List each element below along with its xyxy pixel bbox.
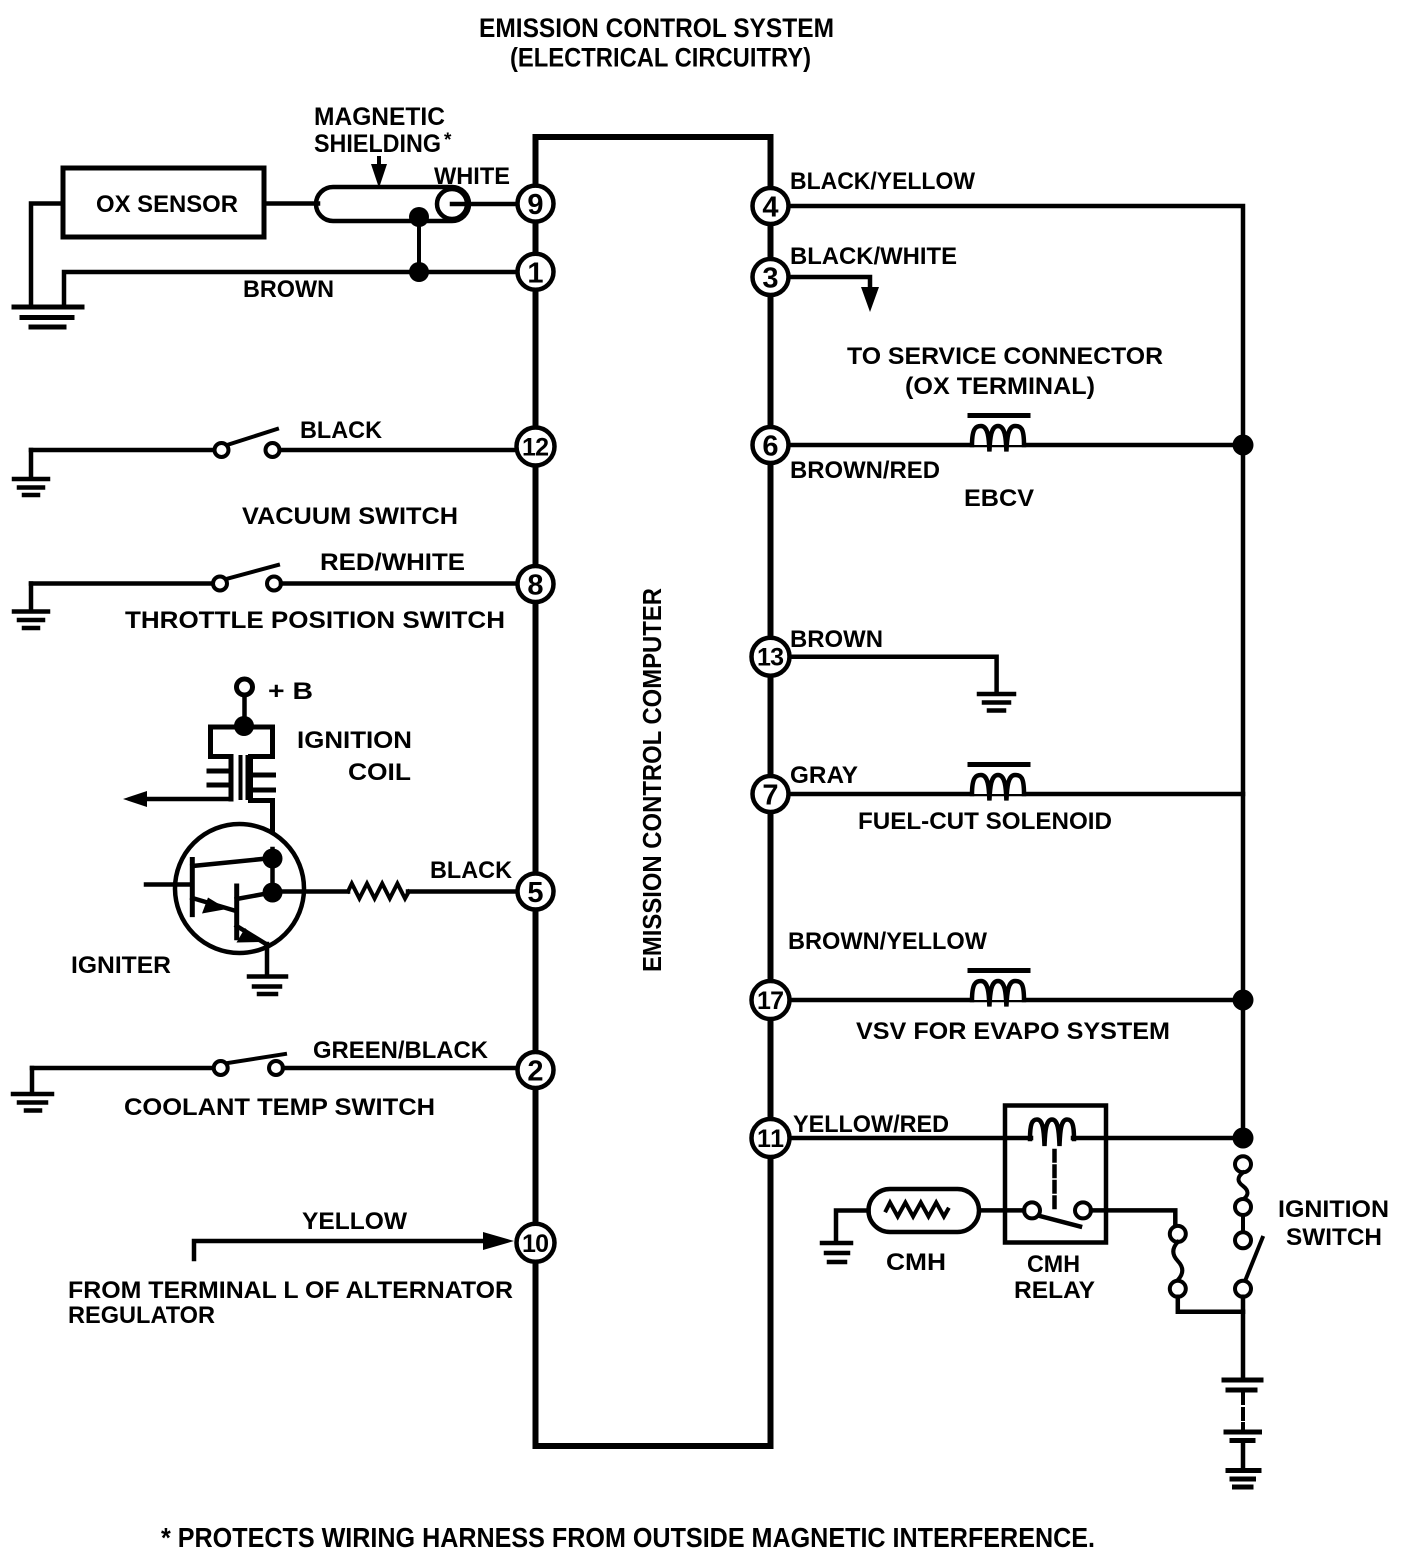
wire: pin 17 to bus xyxy=(789,998,1243,1003)
svg-text:COOLANT TEMP SWITCH: COOLANT TEMP SWITCH xyxy=(124,1094,435,1121)
wire: emitter to ground xyxy=(265,944,270,974)
pin 11 xyxy=(752,1119,790,1157)
svg-text:EMISSION CONTROL COMPUTER: EMISSION CONTROL COMPUTER xyxy=(637,588,667,972)
ground GND8 battery xyxy=(1228,1471,1259,1488)
switch contact xyxy=(215,443,229,457)
svg-text:11: 11 xyxy=(757,1125,784,1153)
ground GND2 xyxy=(14,479,48,495)
pin 10 xyxy=(517,1224,555,1262)
svg-text:4: 4 xyxy=(762,192,778,224)
svg-text:OX SENSOR: OX SENSOR xyxy=(96,191,238,218)
+B terminal xyxy=(237,679,253,695)
wavy wire xyxy=(1239,1173,1248,1200)
svg-text:VSV FOR EVAPO SYSTEM: VSV FOR EVAPO SYSTEM xyxy=(856,1018,1170,1045)
wavy wire xyxy=(1173,1242,1182,1280)
L2 core bar xyxy=(970,762,1028,767)
connector circle xyxy=(1235,1281,1251,1297)
relay coil L4 xyxy=(1030,1120,1074,1147)
wire: brown wire xyxy=(64,272,516,307)
ground GND1 xyxy=(14,307,82,327)
CMH relay box K1 xyxy=(1005,1106,1106,1243)
wire: coil secondary out (arrow left) xyxy=(136,797,231,802)
resistor R1 xyxy=(348,884,409,899)
svg-text:12: 12 xyxy=(522,434,549,462)
igniter Q1 xyxy=(175,824,304,953)
wire: switch to battery xyxy=(1241,1297,1246,1377)
svg-text:GRAY: GRAY xyxy=(790,762,858,789)
wire: ground to switch xyxy=(31,448,214,453)
wire: +B to coil xyxy=(242,695,247,726)
wire: ox sensor left lead xyxy=(31,204,63,306)
throttle position switch S2 xyxy=(29,584,34,611)
wire: pin 7 to bus xyxy=(789,792,1243,797)
svg-text:REGULATOR: REGULATOR xyxy=(68,1302,215,1329)
svg-text:BLACK/YELLOW: BLACK/YELLOW xyxy=(790,168,975,195)
relay contact xyxy=(1024,1202,1040,1218)
junction dot collector xyxy=(263,849,283,869)
connector circle xyxy=(1170,1281,1186,1297)
wire: switch to pin 2 xyxy=(283,1066,514,1071)
wire: link xyxy=(1241,1215,1245,1232)
svg-text:RELAY: RELAY xyxy=(1014,1277,1095,1304)
solenoid coil L2 fuel-cut xyxy=(972,775,1024,801)
wire: ground to switch xyxy=(31,581,213,586)
arrowhead into pin 10 xyxy=(483,1232,514,1250)
Q1 emitter xyxy=(192,898,236,911)
pin 5 xyxy=(518,874,554,910)
pin 3 xyxy=(753,259,789,295)
switch lever xyxy=(228,1054,285,1063)
relay dashed link xyxy=(1052,1151,1057,1209)
svg-text:* PROTECTS WIRING HARNESS FROM: * PROTECTS WIRING HARNESS FROM OUTSIDE M… xyxy=(161,1522,1095,1553)
relay lever xyxy=(1040,1216,1080,1227)
wire: pin 6 to bus xyxy=(789,443,1243,448)
svg-text:YELLOW/RED: YELLOW/RED xyxy=(793,1111,949,1138)
ground GND5 xyxy=(13,1094,52,1111)
pin 7 xyxy=(753,776,789,812)
L3 core bar xyxy=(970,968,1028,973)
svg-text:BLACK: BLACK xyxy=(300,417,383,444)
junction dot bus/pin11 xyxy=(1233,1128,1254,1149)
relay contact xyxy=(1075,1202,1091,1218)
svg-text:FUEL-CUT SOLENOID: FUEL-CUT SOLENOID xyxy=(858,808,1112,835)
arrow to shield xyxy=(377,158,381,170)
svg-text:BROWN/YELLOW: BROWN/YELLOW xyxy=(788,928,987,955)
junction dot bus/EBCV xyxy=(1233,435,1254,456)
switch lever xyxy=(227,429,277,445)
ignition switch lever xyxy=(1246,1238,1263,1279)
pin 2 xyxy=(518,1052,554,1088)
svg-text:EBCV: EBCV xyxy=(964,485,1034,512)
svg-text:(ELECTRICAL CIRCUITRY): (ELECTRICAL CIRCUITRY) xyxy=(510,43,811,73)
ground GND3 xyxy=(14,612,48,629)
L1 core bar xyxy=(970,413,1028,418)
svg-text:TO SERVICE CONNECTOR: TO SERVICE CONNECTOR xyxy=(847,343,1163,370)
svg-text:7: 7 xyxy=(762,780,778,812)
wire: CMH to ground xyxy=(836,1211,869,1241)
svg-text:IGNITION: IGNITION xyxy=(297,727,412,754)
svg-text:EMISSION CONTROL SYSTEM: EMISSION CONTROL SYSTEM xyxy=(479,13,834,43)
wire: ground to switch xyxy=(32,1066,213,1071)
svg-text:5: 5 xyxy=(527,877,543,909)
svg-text:BROWN: BROWN xyxy=(243,276,334,303)
wire: switch to pin 12 xyxy=(280,448,514,453)
svg-text:BROWN/RED: BROWN/RED xyxy=(790,457,940,484)
wire: relay contact out xyxy=(1091,1210,1175,1226)
arrowhead down xyxy=(861,287,879,312)
svg-text:SHIELDING: SHIELDING xyxy=(314,130,441,158)
Q2 collector xyxy=(237,893,272,900)
wire: output to resistor xyxy=(273,889,349,894)
switch contact xyxy=(213,577,227,591)
Q1 base wire xyxy=(146,882,192,887)
svg-text:9: 9 xyxy=(527,189,543,221)
battery BT1 xyxy=(1224,1380,1261,1468)
switch contact xyxy=(266,443,280,457)
junction dot on shield xyxy=(409,207,429,227)
junction dot Q2 collector / output node xyxy=(263,883,283,903)
pin 1 xyxy=(518,254,554,290)
coolant temp switch S3 xyxy=(30,1068,35,1092)
svg-text:IGNITER: IGNITER xyxy=(71,952,171,979)
wire: shield drain down xyxy=(417,217,421,272)
ground GND4 xyxy=(249,977,286,995)
svg-text:10: 10 xyxy=(522,1230,549,1258)
switch contact xyxy=(267,577,281,591)
wire: pin 3 service connector stub xyxy=(789,277,870,294)
svg-text:6: 6 xyxy=(762,431,778,463)
wire: switch to pin 8 xyxy=(281,581,514,586)
svg-text:COIL: COIL xyxy=(348,759,411,786)
pin 6 xyxy=(753,427,789,463)
ECU box U1 xyxy=(536,137,771,1446)
connector circle xyxy=(1235,1156,1251,1172)
svg-text:*: * xyxy=(444,130,452,151)
Q2 base bar xyxy=(234,886,239,938)
svg-text:17: 17 xyxy=(757,987,784,1015)
svg-text:+ B: + B xyxy=(268,678,313,705)
junction dot coil top xyxy=(234,716,254,736)
svg-text:MAGNETIC: MAGNETIC xyxy=(314,103,445,131)
vacuum switch S1 xyxy=(29,450,34,478)
svg-text:1: 1 xyxy=(527,257,543,289)
svg-text:FROM TERMINAL L OF ALTERNATOR: FROM TERMINAL L OF ALTERNATOR xyxy=(68,1277,513,1304)
junction dot on brown wire xyxy=(409,262,429,282)
svg-text:CMH: CMH xyxy=(886,1249,946,1276)
junction dot bus/VSV xyxy=(1233,990,1254,1011)
svg-text:(OX TERMINAL): (OX TERMINAL) xyxy=(905,373,1095,400)
switch contact xyxy=(214,1061,228,1075)
wire: pin 11 to bus xyxy=(789,1136,1031,1141)
ground GND7 xyxy=(822,1243,851,1262)
wire: resistor to pin 5 xyxy=(408,889,516,894)
label MAGNETIC SHIELDING xyxy=(314,103,452,158)
ECU pin terminals xyxy=(517,186,790,1262)
solenoid coil L1 EBCV xyxy=(972,426,1024,452)
pin 8 xyxy=(518,566,554,602)
svg-text:THROTTLE POSITION SWITCH: THROTTLE POSITION SWITCH xyxy=(125,607,505,634)
Q1 collector xyxy=(192,858,272,866)
switch contact xyxy=(269,1061,283,1075)
connector circle xyxy=(1170,1226,1186,1242)
ground GND6 xyxy=(979,694,1014,711)
pin 13 xyxy=(752,638,790,676)
svg-text:CMH: CMH xyxy=(1027,1251,1080,1278)
solenoid coil L3 VSV xyxy=(972,981,1024,1007)
svg-text:BLACK/WHITE: BLACK/WHITE xyxy=(790,243,957,270)
shield capsule W1 xyxy=(316,187,469,221)
wire: collector dots link xyxy=(270,859,275,893)
svg-text:IGNITION: IGNITION xyxy=(1278,1196,1389,1223)
shield end circle xyxy=(437,189,467,219)
CMH heater oval xyxy=(869,1189,980,1232)
svg-text:WHITE: WHITE xyxy=(434,163,510,190)
svg-text:RED/WHITE: RED/WHITE xyxy=(320,549,465,576)
pin 4 xyxy=(753,188,789,224)
connector circle xyxy=(1235,1199,1251,1215)
wire: CMH to relay contact xyxy=(979,1208,1024,1213)
wire: white wire to pin 9 xyxy=(452,202,516,207)
wire: connector to switch bottom xyxy=(1178,1297,1243,1312)
svg-text:2: 2 xyxy=(527,1056,543,1088)
svg-text:BROWN: BROWN xyxy=(790,626,883,653)
svg-text:GREEN/BLACK: GREEN/BLACK xyxy=(313,1037,489,1064)
svg-text:BLACK: BLACK xyxy=(430,857,513,884)
wire: pin 4 feed to battery bus xyxy=(789,206,1243,1138)
wire: ox sensor to shield xyxy=(264,201,318,206)
resistor R2 CMH xyxy=(886,1203,948,1217)
svg-text:13: 13 xyxy=(757,644,784,672)
wire: alternator input elbow xyxy=(194,1241,488,1259)
svg-text:8: 8 xyxy=(527,570,543,602)
connector circle xyxy=(1235,1232,1251,1248)
svg-text:3: 3 xyxy=(762,263,778,295)
wire: coil to collector dot xyxy=(270,849,275,858)
ignition coil T1 xyxy=(209,727,274,849)
Q1 base bar xyxy=(190,860,195,915)
title xyxy=(479,13,834,73)
wire: pin 13 to ground xyxy=(789,657,997,692)
pin 12 xyxy=(517,428,555,466)
switch lever xyxy=(226,565,278,579)
svg-text:YELLOW: YELLOW xyxy=(302,1208,407,1235)
svg-text:VACUUM SWITCH: VACUUM SWITCH xyxy=(242,503,458,530)
pin 9 xyxy=(518,186,554,222)
svg-text:SWITCH: SWITCH xyxy=(1286,1224,1382,1251)
OX SENSOR U2 xyxy=(63,168,264,237)
Q2 emitter xyxy=(237,926,266,944)
pin 17 xyxy=(752,981,790,1019)
